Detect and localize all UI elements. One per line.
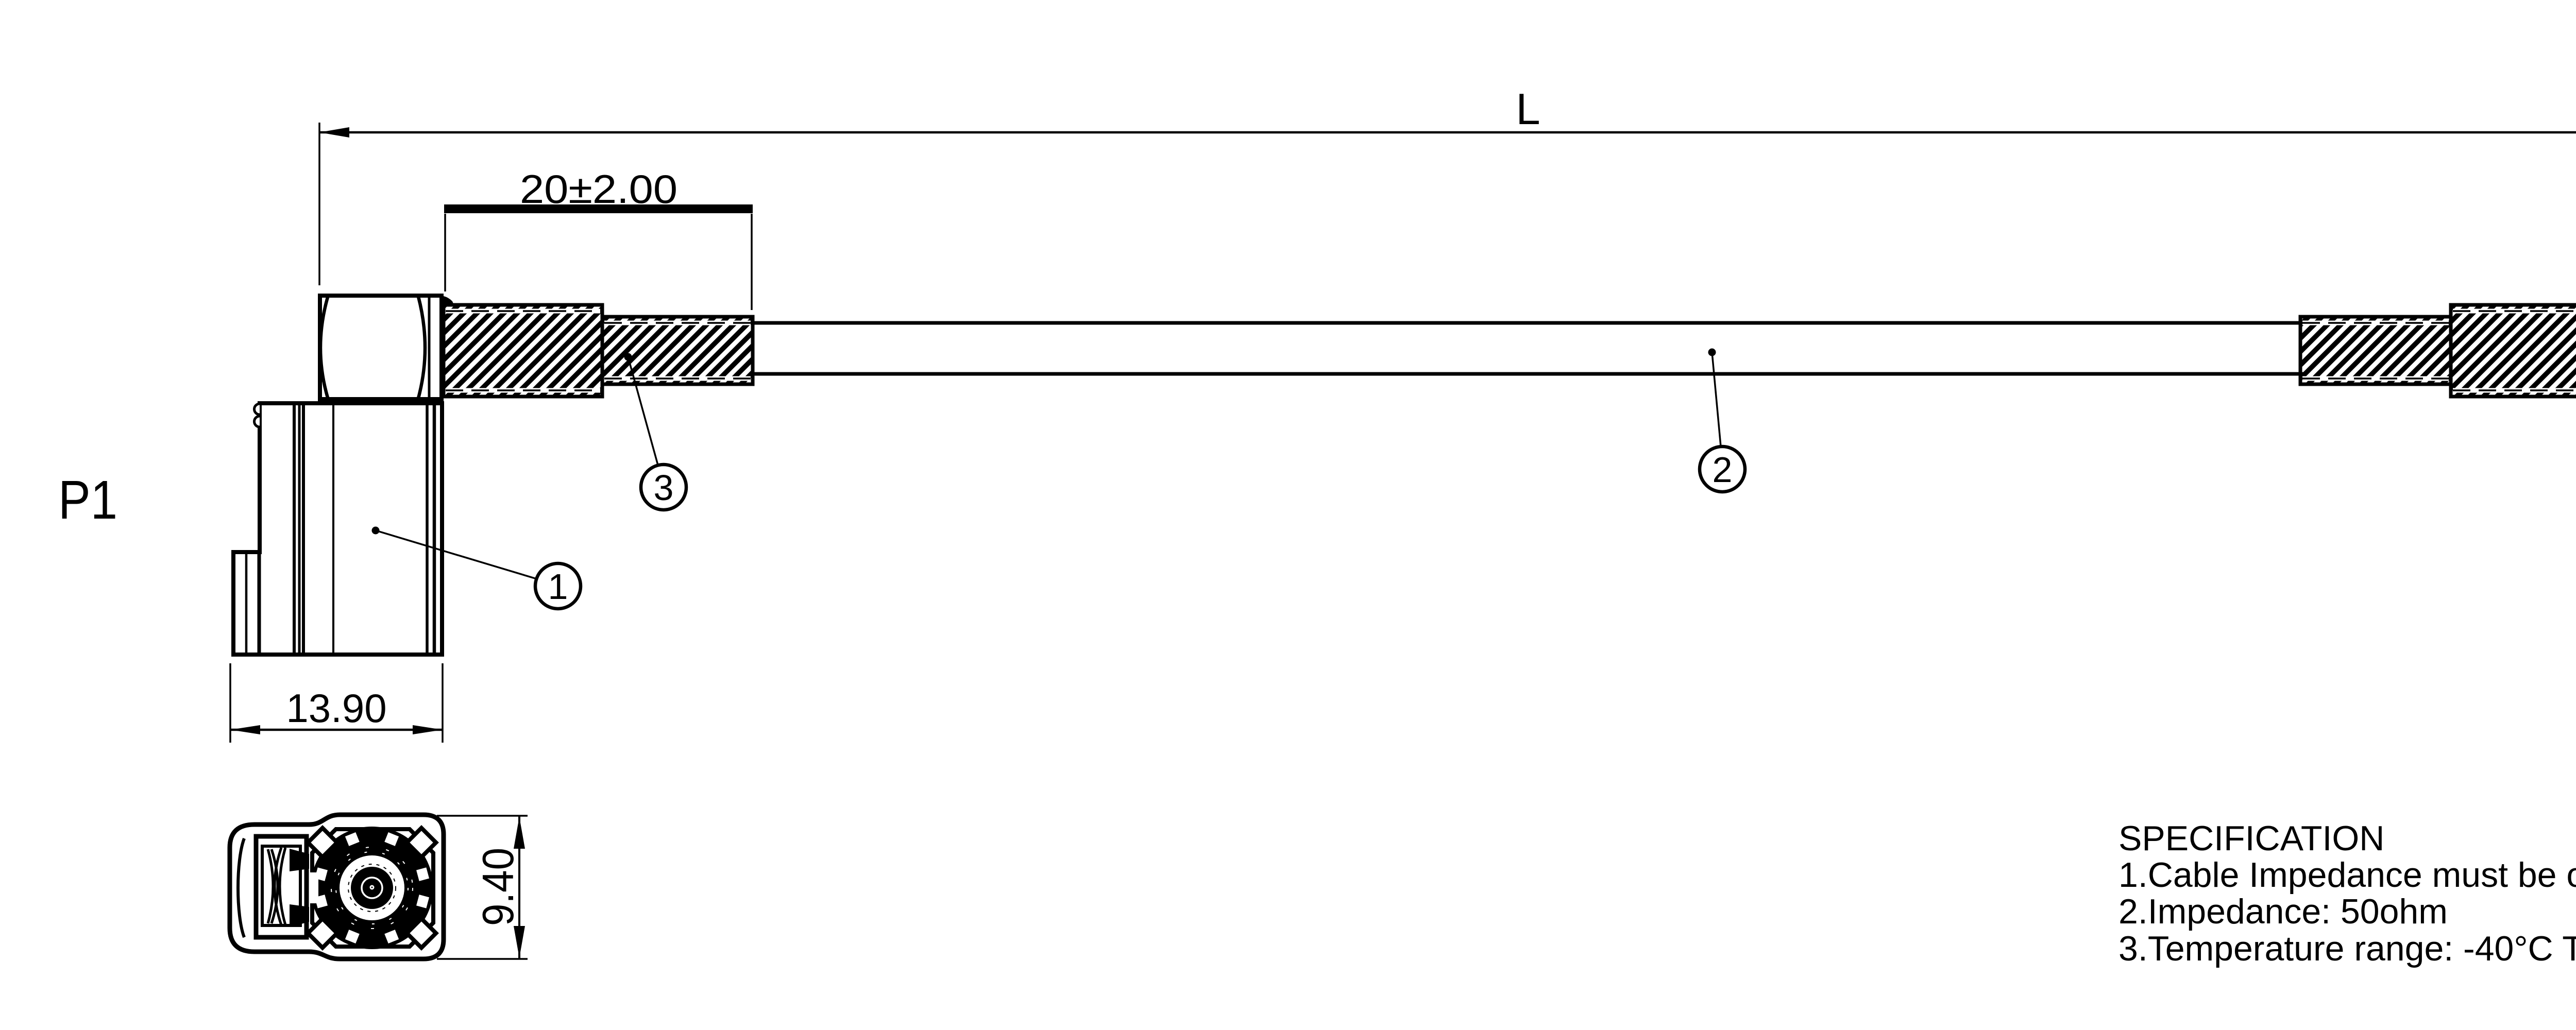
leader 2 (cable)	[1708, 349, 1716, 356]
end view: keying housing (chamfered square)	[312, 829, 433, 947]
svg-text:13.90: 13.90	[286, 685, 386, 731]
svg-text:L: L	[1516, 85, 1540, 134]
heat-shrink boot P2 (hatched)	[2451, 305, 2576, 397]
leader 1 (connector body)	[372, 527, 380, 535]
dimension 20±2.00: extension lines	[445, 214, 752, 310]
svg-text:9.40: 9.40	[474, 848, 523, 926]
svg-text:20±2.00: 20±2.00	[520, 166, 677, 212]
end view: boot frame	[256, 836, 307, 937]
leader 3 (heat-shrink)	[624, 353, 632, 361]
heat-shrink boot P1 (hatched)	[444, 305, 602, 397]
connector P1 body outline	[233, 403, 442, 655]
end view: boot lens arcs	[268, 848, 285, 925]
svg-text:2.Impedance: 50ohm: 2.Impedance: 50ohm	[2119, 892, 2448, 931]
end view: outer housing outline	[230, 815, 444, 959]
connector P1 coupling nut	[320, 296, 442, 399]
end view: white engraved dashes in ring	[336, 852, 408, 924]
svg-text:1: 1	[548, 566, 568, 607]
specification notes	[2119, 819, 2576, 968]
end view: inner wall arc of left boot	[238, 838, 244, 937]
svg-text:P1: P1	[58, 470, 117, 530]
svg-text:1.Cable Impedance must be open: 1.Cable Impedance must be open, Short Mi…	[2119, 855, 2576, 895]
dimension 20±2.00: thick reference bar	[444, 204, 753, 213]
svg-text:3.Temperature range: -40°C TO: 3.Temperature range: -40°C TO +105°C	[2119, 929, 2576, 968]
boot flare nub P1	[444, 296, 454, 306]
svg-text:2: 2	[1713, 450, 1733, 490]
end view: key wedges	[290, 849, 309, 871]
end view: keyway slot to boot	[306, 872, 318, 903]
dimension L: extension lines	[319, 123, 2576, 285]
connector P1 latch bumps	[255, 404, 260, 427]
end view: boot inner sleeve	[262, 846, 300, 925]
end view: outer toothed ring	[325, 841, 419, 935]
cable (coax)	[750, 323, 2303, 374]
dimension 9.40: dimension line with arrowheads	[518, 816, 520, 959]
svg-text:3: 3	[654, 468, 674, 508]
svg-text:SPECIFICATION: SPECIFICATION	[2119, 819, 2384, 858]
connector P1 body internal lines	[246, 404, 441, 654]
end view: corner keys (4 white diamonds)	[308, 828, 337, 857]
cable jacket ferrule P1 (hatched)	[602, 317, 753, 384]
dimension 13.90: extension lines	[230, 663, 443, 743]
dimension L: dimension line with arrowheads	[319, 131, 2576, 134]
end view: ring teeth notches	[315, 832, 429, 943]
end view: inner contact rings	[348, 864, 396, 912]
dimension 9.40: extension lines	[437, 816, 528, 959]
dimension 13.90: dimension line with arrowheads	[230, 729, 443, 731]
cable jacket ferrule P2 (hatched)	[2300, 317, 2451, 384]
